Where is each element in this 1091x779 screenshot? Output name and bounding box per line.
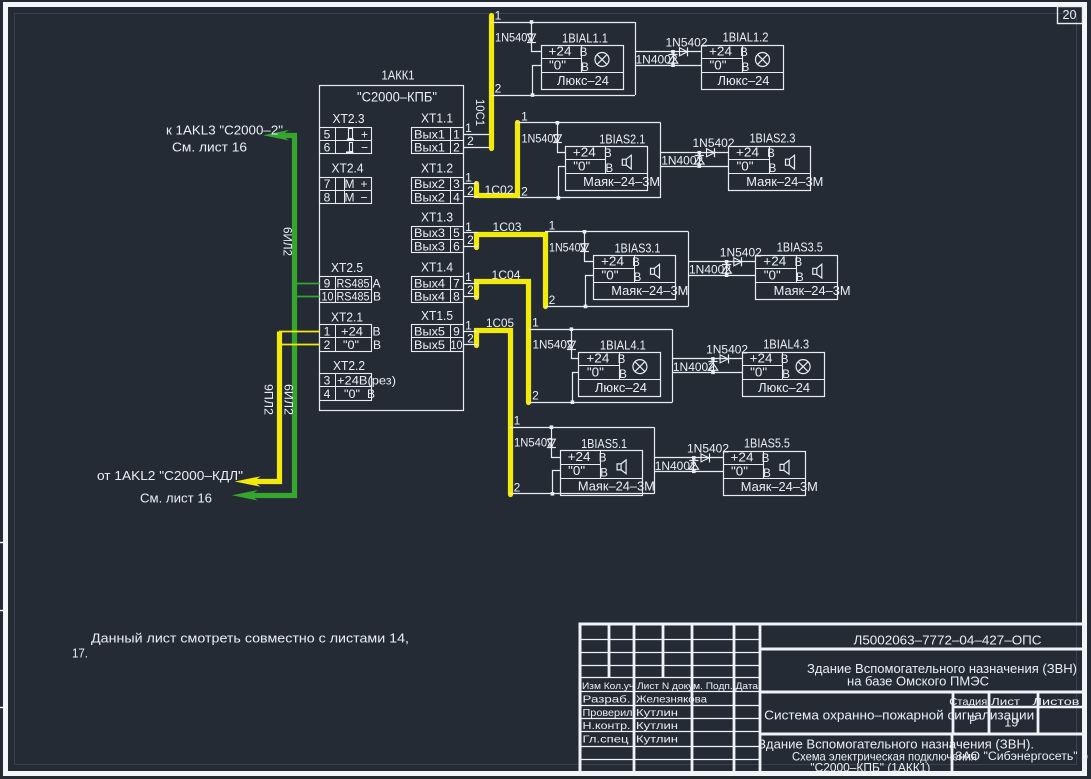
diode VD 1N4002 row2 (flyback) xyxy=(699,153,701,166)
svg-text:8: 8 xyxy=(453,290,460,304)
svg-text:"0": "0" xyxy=(344,387,360,401)
diode VD 1N5402 row1 (series 2) xyxy=(680,48,688,56)
svg-text:Вых2: Вых2 xyxy=(414,190,445,204)
svg-text:+24: +24 xyxy=(736,145,759,159)
cable 1С04 (yellow) xyxy=(477,282,529,403)
wire bottom conductor row4 xyxy=(529,402,673,404)
svg-text:1BIAS5.5: 1BIAS5.5 xyxy=(744,437,790,451)
svg-text:Маяк–24–3М: Маяк–24–3М xyxy=(774,284,851,298)
wire pin stub 2 row4 xyxy=(463,296,478,298)
stadia grid verticals xyxy=(952,692,955,734)
svg-text:2: 2 xyxy=(467,233,474,247)
svg-text:Маяк–24–3М: Маяк–24–3М xyxy=(746,175,823,189)
svg-text:Кутлин: Кутлин xyxy=(636,707,678,719)
svg-text:"0": "0" xyxy=(573,159,590,173)
svg-text:1: 1 xyxy=(465,121,472,135)
node branch top row3 xyxy=(583,230,587,234)
svg-text:1С04: 1С04 xyxy=(492,268,521,282)
svg-text:20: 20 xyxy=(1063,8,1077,22)
svg-text:1BIAL4.1: 1BIAL4.1 xyxy=(600,339,646,353)
svg-text:В: В xyxy=(619,369,627,381)
svg-text:В: В xyxy=(600,468,608,480)
diode VD 1N5402 row2 (series) xyxy=(553,135,561,143)
wire RS485B green stub xyxy=(295,296,320,298)
svg-text:1N5402: 1N5402 xyxy=(495,31,534,45)
diode VD 1N5402 row3 (series 2) xyxy=(734,258,742,266)
svg-text:Вых4: Вых4 xyxy=(414,290,445,304)
svg-text:1: 1 xyxy=(514,414,521,428)
svg-text:Люкс–24: Люкс–24 xyxy=(557,74,609,88)
svg-text:2: 2 xyxy=(467,184,474,198)
diode VD 1N5402 row1 (series) xyxy=(528,34,536,42)
svg-text:1: 1 xyxy=(453,127,460,141)
svg-text:6ИЛ2: 6ИЛ2 xyxy=(282,384,294,415)
node flyback bottom row2 xyxy=(698,164,702,168)
frame centering tick y=707 xyxy=(0,707,8,709)
svg-text:6: 6 xyxy=(453,239,460,253)
svg-text:ХТ2.2: ХТ2.2 xyxy=(333,359,365,373)
svg-text:В: В xyxy=(634,272,642,284)
svg-text:9: 9 xyxy=(324,276,331,290)
svg-text:1С02: 1С02 xyxy=(485,183,514,197)
svg-text:См. лист 16: См. лист 16 xyxy=(140,492,212,506)
title block right horizontal lines xyxy=(760,648,1084,651)
svg-text:8: 8 xyxy=(324,190,331,204)
wire pin stub 1 row4 xyxy=(463,283,478,285)
svg-text:1N4002: 1N4002 xyxy=(661,154,703,168)
node flyback bottom row3 xyxy=(725,273,729,277)
svg-text:−: − xyxy=(360,190,367,204)
svg-text:2: 2 xyxy=(453,141,460,155)
component 1BIAL1.1 (Люкс–24) xyxy=(542,46,624,90)
svg-text:RS485: RS485 xyxy=(337,290,370,304)
wire pin stub 1 row3 xyxy=(463,232,478,234)
wire "0" branch row3 xyxy=(586,276,594,307)
wire +24 branch row1 xyxy=(532,23,542,52)
svg-text:Листов: Листов xyxy=(1033,696,1081,708)
title block header underline xyxy=(581,691,761,693)
svg-text:1: 1 xyxy=(521,109,528,123)
device 1AKK1 "C2000-KPB" outline xyxy=(320,86,464,411)
node branch bottom row5 xyxy=(551,492,555,496)
svg-text:Р: Р xyxy=(969,715,977,727)
svg-text:Маяк–24–3М: Маяк–24–3М xyxy=(611,284,688,298)
terminal XT2.1 xyxy=(320,325,372,352)
svg-text:1АКК1: 1АКК1 xyxy=(382,68,415,83)
svg-text:1N4002: 1N4002 xyxy=(636,53,678,67)
svg-text:М: М xyxy=(345,190,355,204)
svg-text:1BIAL4.3: 1BIAL4.3 xyxy=(763,338,809,352)
svg-text:В: В xyxy=(580,47,588,59)
svg-text:+: + xyxy=(361,127,368,141)
svg-text:1BIAS2.3: 1BIAS2.3 xyxy=(750,131,796,145)
diode VD 1N4002 row4 (flyback) xyxy=(713,359,715,372)
svg-text:1: 1 xyxy=(465,318,472,332)
wire "0" branch row4 xyxy=(573,373,579,403)
wire stub "0" to 1BIAS2.3 xyxy=(661,166,729,168)
wire top conductor row3 xyxy=(545,231,689,233)
svg-text:Н.контр.: Н.контр. xyxy=(583,720,631,732)
terminal XT2.4 xyxy=(320,178,372,204)
svg-text:ХТ2.3: ХТ2.3 xyxy=(333,112,365,126)
title block column List xyxy=(633,624,636,773)
wire top conductor row4 xyxy=(529,329,673,331)
svg-text:В: В xyxy=(605,163,613,175)
svg-text:2: 2 xyxy=(467,283,474,297)
wire "0"V yellow stub xyxy=(279,344,320,346)
svg-text:+24: +24 xyxy=(586,352,609,366)
svg-text:+24В(рез): +24В(рез) xyxy=(337,374,396,388)
svg-text:В: В xyxy=(763,468,771,480)
svg-text:1BIAS3.1: 1BIAS3.1 xyxy=(615,241,661,255)
node flyback top row1 xyxy=(671,50,675,54)
svg-text:Л5002063–7772–04–427–ОПС: Л5002063–7772–04–427–ОПС xyxy=(854,633,1042,648)
svg-text:Маяк–24–3М: Маяк–24–3М xyxy=(583,175,660,189)
cable 1С02 (yellow) xyxy=(477,123,518,196)
sensor symbol pin 5 xyxy=(349,129,353,139)
svg-text:Данный лист смотреть совместно: Данный лист смотреть совместно с листами… xyxy=(91,631,409,646)
svg-text:Вых4: Вых4 xyxy=(414,276,445,290)
node flyback bottom row1 xyxy=(671,63,675,67)
wire +24 branch row5 xyxy=(552,428,561,458)
wire stub +24 to 1BIAS5.5 xyxy=(654,457,723,459)
svg-text:2: 2 xyxy=(521,184,528,198)
svg-text:"0": "0" xyxy=(764,268,781,282)
wire "0" branch row5 xyxy=(553,471,561,494)
svg-text:1N5402: 1N5402 xyxy=(522,131,560,145)
svg-text:"С2000–КПБ": "С2000–КПБ" xyxy=(357,90,437,105)
wire loop right edge row2 xyxy=(660,123,662,198)
svg-text:В: В xyxy=(740,47,748,59)
svg-text:17.: 17. xyxy=(72,646,88,661)
svg-text:1N4002: 1N4002 xyxy=(689,263,731,277)
svg-text:"0": "0" xyxy=(568,464,585,478)
svg-text:10: 10 xyxy=(451,338,463,352)
svg-text:2: 2 xyxy=(467,332,474,346)
svg-text:Маяк–24–3М: Маяк–24–3М xyxy=(741,480,818,494)
svg-text:1: 1 xyxy=(324,325,331,339)
diode VD 1N5402 row4 (series 2) xyxy=(720,355,728,363)
wire pin stub 2 row2 xyxy=(463,196,478,198)
wire "0" branch row2 xyxy=(559,167,566,198)
svg-text:Люкс–24: Люкс–24 xyxy=(595,381,647,395)
diode VD 1N5402 row4 (series) xyxy=(567,341,575,349)
wire pin stub 2 row3 xyxy=(463,246,478,248)
wire "0" branch row1 xyxy=(533,66,542,96)
svg-text:М: М xyxy=(345,177,355,191)
wire loop right edge row3 xyxy=(688,232,690,307)
wire pin stub 1 row2 xyxy=(463,183,478,185)
component 1BIAS5.1 (Маяк–24–3М) xyxy=(561,451,643,496)
svg-text:См. лист 16: См. лист 16 xyxy=(172,141,247,155)
svg-text:ХТ2.5: ХТ2.5 xyxy=(331,261,363,275)
node branch top row4 xyxy=(570,327,574,331)
svg-text:1С03: 1С03 xyxy=(493,220,522,234)
svg-text:Система охранно–пожарной сигна: Система охранно–пожарной сигнализации xyxy=(764,709,1034,723)
svg-text:"0": "0" xyxy=(710,58,727,72)
svg-text:В: В xyxy=(373,290,381,304)
svg-text:1: 1 xyxy=(465,270,472,284)
svg-text:+24: +24 xyxy=(731,451,754,465)
svg-text:1BIAS3.5: 1BIAS3.5 xyxy=(777,240,823,254)
terminal XT2.2 xyxy=(320,374,372,401)
svg-text:+24: +24 xyxy=(763,254,786,268)
svg-text:"0": "0" xyxy=(737,159,754,173)
wire top conductor row2 xyxy=(518,122,661,124)
svg-text:на базе Омского ПМЭС: на базе Омского ПМЭС xyxy=(847,674,989,688)
cable 2LI6 (green, to 1AKL3) xyxy=(246,136,295,496)
svg-text:10: 10 xyxy=(322,290,334,304)
svg-text:В: В xyxy=(372,325,380,339)
svg-text:1N4002: 1N4002 xyxy=(673,360,715,374)
stadia header underline xyxy=(953,706,1084,709)
svg-text:Кутлин: Кутлин xyxy=(636,733,678,745)
wire top conductor row5 xyxy=(510,427,654,429)
diode VD 1N4002 row1 (flyback) xyxy=(673,52,675,65)
wire stub "0" to 1BIAS3.5 xyxy=(689,275,756,277)
svg-text:1: 1 xyxy=(549,218,556,232)
svg-text:к 1AKL3 "С2000–2": к 1AKL3 "С2000–2" xyxy=(166,124,283,138)
wire top conductor row1 xyxy=(491,22,635,24)
svg-text:"С2000–КПБ" (1АКК1): "С2000–КПБ" (1АКК1) xyxy=(810,760,930,774)
title block column Kol.uch xyxy=(662,624,665,678)
svg-text:Вых2: Вых2 xyxy=(414,177,445,191)
svg-text:ХТ2.4: ХТ2.4 xyxy=(332,162,364,176)
svg-text:В: В xyxy=(796,272,804,284)
svg-text:В: В xyxy=(781,354,789,366)
svg-text:−: − xyxy=(361,141,368,155)
svg-text:ХТ1.1: ХТ1.1 xyxy=(421,112,453,126)
svg-text:+24: +24 xyxy=(750,352,773,366)
svg-text:2: 2 xyxy=(495,82,502,96)
svg-text:2: 2 xyxy=(467,134,474,148)
terminal XT2.5 xyxy=(320,277,372,303)
svg-text:9ПЛ2: 9ПЛ2 xyxy=(262,384,274,415)
svg-text:Лист: Лист xyxy=(991,696,1020,708)
svg-text:В: В xyxy=(604,148,612,160)
svg-text:Вых5: Вых5 xyxy=(414,338,445,352)
svg-text:1: 1 xyxy=(465,220,472,234)
svg-text:1С05: 1С05 xyxy=(486,316,514,330)
svg-text:"0": "0" xyxy=(549,58,566,72)
title block column Izm xyxy=(608,624,611,678)
diode VD 1N5402 row3 (series) xyxy=(581,244,589,252)
svg-text:5: 5 xyxy=(324,127,331,141)
svg-text:2: 2 xyxy=(324,338,331,352)
title block signature row lines xyxy=(581,705,761,707)
wire stub +24 to 1BIAS2.3 xyxy=(661,152,729,154)
svg-text:ХТ1.2: ХТ1.2 xyxy=(421,161,453,175)
wire bottom conductor row1 xyxy=(491,95,635,97)
diode VD 1N5402 row2 (series 2) xyxy=(707,149,715,157)
sensor symbol pin 6 xyxy=(350,143,353,152)
node branch bottom row2 xyxy=(557,196,561,200)
svg-text:"0": "0" xyxy=(602,268,619,282)
svg-text:Гл.спец: Гл.спец xyxy=(583,733,629,745)
node branch top row5 xyxy=(550,425,554,429)
svg-text:6ИЛ2: 6ИЛ2 xyxy=(281,227,293,256)
svg-text:1: 1 xyxy=(495,9,502,23)
svg-text:1BIAS2.1: 1BIAS2.1 xyxy=(599,132,645,146)
svg-text:1N5402: 1N5402 xyxy=(533,338,574,352)
wire stub +24 to 1BIAL4.3 xyxy=(672,358,742,360)
svg-text:В: В xyxy=(767,148,775,160)
node branch bottom row4 xyxy=(571,400,575,404)
svg-text:Вых1: Вых1 xyxy=(414,141,445,155)
svg-text:2: 2 xyxy=(532,389,539,403)
svg-text:Железнякова: Железнякова xyxy=(636,694,707,706)
cable 2LP9 (yellow, to 1AKL2) xyxy=(249,332,280,482)
cable 1С03 (yellow) xyxy=(477,235,546,307)
svg-text:2: 2 xyxy=(549,293,556,307)
svg-text:ХТ1.5: ХТ1.5 xyxy=(421,309,453,323)
wire stub +24 to 1BIAL1.2 xyxy=(635,51,702,53)
svg-text:1: 1 xyxy=(532,316,539,330)
svg-text:Люкс–24: Люкс–24 xyxy=(758,381,810,395)
wire pin stub 2 row5 xyxy=(463,344,478,346)
svg-text:+24: +24 xyxy=(601,254,624,268)
node branch top row2 xyxy=(556,121,560,125)
cable 1С01 (yellow) xyxy=(489,16,494,149)
terminal ХТ1.4 xyxy=(412,277,464,303)
node branch bottom row3 xyxy=(584,305,588,309)
arrow to 1AKL3 xyxy=(263,130,289,141)
svg-text:1: 1 xyxy=(465,171,472,185)
svg-text:19: 19 xyxy=(1004,718,1018,730)
component 1BIAS3.5 (Маяк–24–3М) xyxy=(756,256,838,300)
svg-text:Маяк–24–3М: Маяк–24–3М xyxy=(578,480,655,494)
diode VD 1N4002 row3 (flyback) xyxy=(726,262,728,275)
node flyback bottom row5 xyxy=(692,470,696,474)
svg-text:ХТ2.1: ХТ2.1 xyxy=(331,311,363,325)
svg-text:3: 3 xyxy=(324,374,331,388)
component 1BIAL1.2 (Люкс–24) xyxy=(702,46,784,90)
svg-text:Вых5: Вых5 xyxy=(414,325,445,339)
svg-text:Кутлин: Кутлин xyxy=(636,720,678,732)
svg-text:В: В xyxy=(742,62,750,74)
frame centering tick y=610 xyxy=(0,610,8,612)
svg-text:6: 6 xyxy=(324,141,331,155)
svg-text:В: В xyxy=(367,387,375,401)
svg-text:В: В xyxy=(618,354,626,366)
svg-text:1BIAS5.1: 1BIAS5.1 xyxy=(581,437,627,451)
svg-text:4: 4 xyxy=(324,387,331,401)
svg-text:от 1AKL2 "С2000–КДЛ": от 1AKL2 "С2000–КДЛ" xyxy=(97,469,243,483)
wire bottom conductor row2 xyxy=(518,197,661,199)
arrow from 1AKL2 (green end) xyxy=(232,490,258,501)
svg-text:1BIAL1.1: 1BIAL1.1 xyxy=(562,31,608,45)
svg-text:"0": "0" xyxy=(343,338,359,352)
svg-text:1BIAL1.2: 1BIAL1.2 xyxy=(723,30,769,44)
svg-text:5: 5 xyxy=(453,226,460,240)
component 1BIAS5.5 (Маяк–24–3М) xyxy=(724,452,806,496)
svg-text:Вых3: Вых3 xyxy=(414,226,445,240)
title block column Data xyxy=(733,624,736,773)
svg-text:+24: +24 xyxy=(568,450,591,464)
component 1BIAS3.1 (Маяк–24–3М) xyxy=(594,256,676,300)
svg-text:Вых3: Вых3 xyxy=(414,239,445,253)
wire RS485A green stub xyxy=(295,283,320,285)
cable 1С05 (yellow) xyxy=(477,331,511,495)
wire stub "0" to 1BIAL1.2 xyxy=(635,65,702,67)
terminal ХТ1.1 xyxy=(412,128,464,154)
sheet number box 20 xyxy=(1058,7,1083,24)
svg-text:Люкс–24: Люкс–24 xyxy=(718,74,770,88)
wire stub "0" to 1BIAL4.3 xyxy=(672,372,742,374)
title block divider left/right xyxy=(759,624,762,773)
svg-text:В: В xyxy=(762,453,770,465)
svg-text:Вых1: Вых1 xyxy=(414,127,445,141)
component 1BIAS2.3 (Маяк–24–3М) xyxy=(729,147,811,191)
wire loop right edge row1 xyxy=(635,22,637,95)
svg-text:+24: +24 xyxy=(549,44,572,58)
node flyback top row5 xyxy=(692,456,696,460)
svg-text:+24: +24 xyxy=(341,325,363,339)
node flyback bottom row4 xyxy=(711,371,715,375)
wire +24 branch row2 xyxy=(558,123,566,153)
svg-text:ХТ1.4: ХТ1.4 xyxy=(421,261,453,275)
node branch bottom row1 xyxy=(531,93,535,97)
component 1BIAL4.3 (Люкс–24) xyxy=(743,353,825,397)
title block column Podp xyxy=(691,624,694,773)
svg-text:А: А xyxy=(372,276,380,290)
svg-text:1N5402: 1N5402 xyxy=(549,240,587,254)
terminal ХТ1.3 xyxy=(412,227,464,253)
svg-text:В: В xyxy=(581,62,589,74)
svg-text:9: 9 xyxy=(453,325,460,339)
wire +24V yellow stub xyxy=(279,331,320,333)
svg-text:Разраб.: Разраб. xyxy=(583,694,631,706)
wire bottom conductor row5 xyxy=(510,493,654,495)
title block outline xyxy=(580,624,1084,773)
wire loop right edge row5 xyxy=(654,427,656,494)
wire loop right edge row4 xyxy=(672,329,674,402)
wire +24 branch row4 xyxy=(572,330,579,359)
node flyback top row2 xyxy=(698,151,702,155)
bottom section vertical xyxy=(951,735,954,774)
component 1BIAS2.1 (Маяк–24–3М) xyxy=(566,147,648,191)
node branch top row1 xyxy=(530,20,534,24)
svg-text:В: В xyxy=(794,257,802,269)
svg-text:4: 4 xyxy=(453,190,460,204)
svg-text:В: В xyxy=(769,163,777,175)
wire +24 branch row3 xyxy=(585,232,594,262)
svg-text:3: 3 xyxy=(453,177,460,191)
svg-text:Изм Кол.уч Лист N докум. Подп.: Изм Кол.уч Лист N докум. Подп. Дата xyxy=(582,681,759,692)
wire stub +24 to 1BIAS3.5 xyxy=(689,261,756,263)
wire pin stub 1 row1 xyxy=(463,134,489,136)
title block revision row lines xyxy=(581,639,761,641)
svg-text:В: В xyxy=(782,369,790,381)
svg-text:+: + xyxy=(360,177,367,191)
wire stub "0" to 1BIAS5.5 xyxy=(654,471,723,473)
svg-text:ЗАО "Сибэнергосеть" р: ЗАО "Сибэнергосеть" р xyxy=(955,749,1088,763)
svg-text:"0": "0" xyxy=(750,366,767,380)
terminal XT2.3 xyxy=(320,128,372,154)
svg-text:10С1: 10С1 xyxy=(473,99,487,126)
svg-text:RS485: RS485 xyxy=(337,276,370,290)
frame centering tick y=542 xyxy=(0,542,8,544)
svg-text:"0": "0" xyxy=(731,465,748,479)
svg-text:7: 7 xyxy=(453,276,460,290)
svg-text:7: 7 xyxy=(324,177,331,191)
diode VD 1N5402 row5 (series) xyxy=(547,439,555,447)
svg-text:В: В xyxy=(632,257,640,269)
svg-text:Стадия: Стадия xyxy=(949,696,987,708)
wire pin stub 1 row5 xyxy=(463,331,478,333)
svg-text:В: В xyxy=(599,453,607,465)
diode VD 1N5402 row5 (series 2) xyxy=(701,454,709,462)
